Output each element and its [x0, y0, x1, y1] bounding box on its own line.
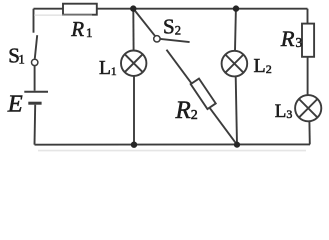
wire L2 to bottom node [236, 76, 237, 144]
svg-text:R3: R3 [280, 26, 303, 51]
switch S2 blade [160, 39, 189, 42]
wire node B to L2 [234, 9, 237, 51]
lamp L2 [222, 51, 248, 77]
svg-text:L2: L2 [254, 55, 272, 77]
node B junction dot [233, 5, 239, 11]
switch S2 pivot circle [154, 36, 160, 42]
wire left top segment above S1 [33, 9, 35, 33]
node A junction dot [130, 5, 136, 11]
wire node A to L1 [132, 9, 134, 51]
switch S1 blade [35, 35, 37, 58]
svg-text:R2: R2 [175, 97, 198, 124]
battery E long plate [24, 91, 48, 93]
wire battery to bottom [34, 105, 37, 145]
resistor R2 [191, 79, 216, 109]
lamp L1 [121, 51, 146, 76]
wire S2 to R2 diagonal [167, 50, 238, 145]
node D junction dot (R2/L2 bottom) [234, 142, 240, 148]
wire L3 to R3 [307, 57, 309, 95]
svg-text:S1: S1 [8, 43, 24, 67]
svg-text:S2: S2 [163, 14, 181, 38]
wire shadow under bottom wire (scan artifact) [38, 150, 306, 152]
svg-text:R1: R1 [70, 17, 92, 41]
switch S1 pivot circle [32, 59, 38, 65]
battery E short plate [28, 102, 41, 105]
wire S1 to battery [34, 66, 36, 91]
svg-text:L3: L3 [275, 101, 293, 122]
svg-text:L1: L1 [99, 58, 117, 79]
wire node A to S2 [133, 9, 155, 37]
lamp L3 [295, 95, 321, 121]
wire L1 to bottom [133, 76, 135, 145]
wire R3 to top [307, 9, 309, 24]
wire bottom horizontal [35, 143, 311, 145]
wire shadow under top wire (scan artifact) [34, 14, 92, 16]
resistor R3 [302, 24, 314, 57]
resistor R1 [63, 4, 97, 15]
wire top horizontal [34, 8, 308, 10]
wire right bottom corner to L3 [308, 121, 310, 144]
node C junction dot (L1 bottom) [131, 142, 137, 148]
svg-text:E: E [7, 91, 23, 118]
